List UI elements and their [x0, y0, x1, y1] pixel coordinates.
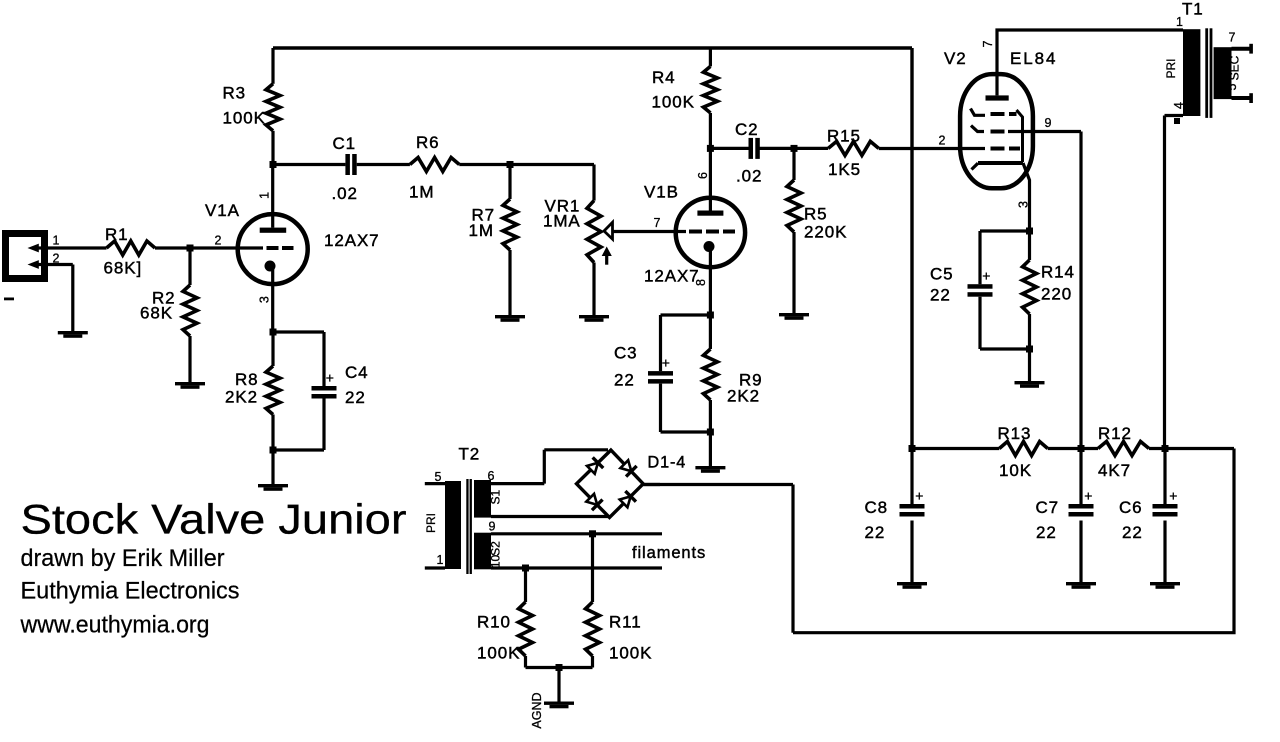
R12 label [1098, 424, 1132, 443]
R12 value 4K7 [1098, 461, 1131, 480]
T2 core [466, 479, 472, 574]
T2 pin 10 label [489, 555, 503, 569]
C5 value 22 [930, 286, 951, 305]
node B+ C8 [909, 445, 916, 452]
svg-text:filaments: filaments [632, 544, 706, 562]
wire [188, 336, 191, 382]
svg-text:SEC: SEC [1228, 55, 1242, 80]
svg-text:100K: 100K [223, 109, 266, 128]
wire [709, 432, 712, 466]
svg-text:R13: R13 [998, 424, 1032, 443]
node V1B plate [707, 145, 714, 152]
svg-text:R14: R14 [1041, 263, 1075, 282]
resistor R8 [266, 366, 280, 415]
resistor R11 [586, 602, 600, 656]
svg-text:6: 6 [488, 469, 495, 483]
VR1 value 1MA [543, 212, 581, 231]
wire [758, 147, 794, 150]
svg-text:+: + [1084, 488, 1092, 504]
ground AGND [544, 702, 574, 709]
svg-text:1M: 1M [409, 183, 434, 202]
wire [980, 297, 1030, 349]
V2 pin 9 label [1045, 116, 1052, 130]
input jack J1 [6, 234, 49, 279]
ground [495, 315, 525, 322]
diode D3 [585, 492, 603, 510]
R4 label [652, 68, 676, 87]
C4 label [345, 363, 369, 382]
D1-4 label [648, 454, 687, 472]
title Stock Valve Junior [21, 496, 407, 543]
R2 label [152, 289, 176, 308]
T2 primary bottom lead [425, 566, 445, 569]
C7 plus [1084, 488, 1092, 504]
V2 label [944, 49, 967, 68]
resistor R15 [828, 141, 879, 155]
wire [592, 165, 595, 201]
svg-text:1K5: 1K5 [828, 160, 861, 179]
T2 S2 label [488, 541, 502, 556]
wire V2 cathode [1023, 163, 1030, 231]
wire wiper to V1B grid [613, 230, 687, 233]
wire rectifier to rail [643, 449, 1235, 633]
wire [1028, 231, 1031, 260]
svg-text:C3: C3 [614, 344, 638, 363]
C8 value 22 [865, 523, 886, 542]
node C2 output [791, 145, 798, 152]
node B+ C6 [1162, 445, 1169, 452]
svg-text:9: 9 [1045, 116, 1052, 130]
V1B pin 6 label [696, 172, 710, 179]
R13 label [998, 424, 1032, 443]
svg-text:3: 3 [257, 296, 271, 303]
svg-text:AGND: AGND [530, 692, 544, 728]
R13 value 10K [999, 461, 1032, 480]
wire V2 screen [1008, 132, 1081, 449]
wire bridge output [643, 483, 660, 486]
wire [357, 163, 410, 166]
wire [524, 568, 527, 602]
ground [58, 331, 88, 338]
svg-text:.02: .02 [332, 184, 358, 203]
wire [459, 163, 594, 166]
node R11 tap [589, 530, 596, 537]
V1B pin 8 label [694, 279, 708, 286]
T1 secondary bottom lead [1232, 93, 1253, 103]
svg-text:2: 2 [939, 134, 946, 148]
triode V1A [238, 214, 308, 284]
svg-text:12AX7: 12AX7 [644, 267, 700, 286]
node V1A cathode [270, 329, 277, 336]
V1A type 12AX7 [324, 231, 380, 250]
wire [1048, 447, 1098, 450]
wire [508, 165, 511, 200]
wire V2 plate [995, 30, 1183, 95]
T1 secondary top lead [1232, 44, 1253, 54]
V1A label [205, 201, 240, 220]
R14 value 220 [1041, 285, 1072, 304]
R1 value 68K] [104, 259, 143, 278]
resistor R12 [1098, 442, 1149, 456]
C1 label [333, 134, 357, 153]
svg-text:+: + [1169, 488, 1177, 504]
node V1B cathode [707, 312, 714, 319]
svg-text:7: 7 [1229, 31, 1236, 45]
svg-text:R3: R3 [223, 84, 247, 103]
VR1 wiper arrow [602, 222, 613, 264]
wire [273, 332, 324, 386]
resistor R2 [183, 285, 197, 336]
T1 label [1182, 0, 1204, 19]
svg-text:V1B: V1B [644, 183, 679, 202]
T1 pin 1 label [1176, 15, 1183, 29]
R9 value 2K2 [727, 387, 760, 406]
svg-text:5: 5 [435, 470, 442, 484]
ground [1015, 381, 1045, 388]
svg-text:PRI: PRI [1164, 58, 1178, 78]
capacitor C1 [345, 154, 356, 175]
T2 primary top lead [425, 482, 445, 485]
C8 plus [915, 488, 923, 504]
capacitor C5 [968, 284, 993, 297]
wire [557, 668, 560, 702]
C4 value 22 [345, 388, 366, 407]
R7 value 1M [469, 221, 494, 240]
V1B pin 7 label [654, 216, 661, 230]
svg-text:T2: T2 [459, 445, 481, 464]
wire [508, 250, 511, 315]
R6 label [416, 133, 440, 152]
triode V1B [676, 198, 745, 267]
wire [591, 534, 594, 602]
subtitle www.euthymia.org [20, 612, 210, 639]
T1 SEC label [1228, 55, 1242, 80]
node R9 bottom [707, 429, 714, 436]
R15 label [827, 127, 861, 146]
svg-text:2: 2 [215, 234, 222, 248]
capacitor C8 [900, 449, 925, 583]
R7 label [472, 206, 496, 225]
wire [792, 232, 795, 313]
wire [155, 246, 263, 249]
svg-text:1: 1 [257, 192, 271, 199]
R8 value 2K2 [225, 388, 258, 407]
T2 PRI label [424, 513, 438, 533]
T2 pin 9 label [489, 520, 496, 534]
svg-text:22: 22 [930, 286, 951, 305]
VR1 label [545, 197, 581, 216]
C1 value .02 [332, 184, 358, 203]
transformer T1 secondary [1214, 47, 1232, 99]
svg-text:2K2: 2K2 [225, 388, 258, 407]
wire [48, 246, 107, 249]
T1 PRI label [1164, 58, 1178, 78]
V2 pin 2 label [939, 134, 946, 148]
jack pin 1 label [53, 234, 60, 248]
svg-text:1MA: 1MA [543, 212, 581, 231]
capacitor C6 [1153, 449, 1178, 583]
C2 label [735, 120, 759, 139]
C8 label [865, 498, 889, 517]
V2 pin 3 label [1016, 201, 1030, 208]
V1A pin 2 label [215, 234, 222, 248]
V2 pin 7 label [981, 40, 995, 47]
svg-text:C6: C6 [1119, 498, 1143, 517]
jack polarity minus [4, 298, 14, 301]
wire [879, 147, 985, 150]
svg-text:EL84: EL84 [1010, 49, 1057, 68]
svg-text:R10: R10 [477, 613, 511, 632]
svg-text:100K: 100K [609, 644, 652, 663]
wire T1 primary bottom [1165, 116, 1184, 449]
wire filament 2 [491, 566, 662, 569]
T2 pin 5 label [435, 470, 442, 484]
resistor R4 [703, 66, 717, 113]
svg-text:C8: C8 [865, 498, 889, 517]
R14 label [1041, 263, 1075, 282]
transformer T2 secondary 1 [474, 480, 491, 518]
resistor R5 [787, 180, 801, 232]
node input grid junction [187, 245, 194, 252]
wire [709, 113, 712, 148]
ground [695, 466, 725, 473]
R11 value 100K [609, 644, 652, 663]
wire [709, 315, 712, 349]
svg-text:R8: R8 [235, 370, 259, 389]
wire [271, 48, 274, 84]
diode D1 [586, 457, 604, 475]
svg-text:22: 22 [1036, 523, 1057, 542]
R1 label [105, 225, 129, 244]
svg-text:1: 1 [437, 553, 444, 567]
wire [709, 400, 712, 432]
node R10 tap [522, 565, 529, 572]
resistor R14 [1023, 260, 1037, 314]
svg-text:C5: C5 [930, 265, 954, 284]
diode D4 [618, 491, 636, 509]
svg-text:www.euthymia.org: www.euthymia.org [20, 612, 210, 639]
wire [1149, 447, 1234, 450]
R5 value 220K [804, 223, 847, 242]
node R6 output [507, 161, 514, 168]
resistor R3 [266, 84, 280, 131]
capacitor C4 [312, 386, 337, 399]
svg-text:C4: C4 [345, 363, 369, 382]
svg-text:+: + [982, 268, 990, 284]
svg-text:8: 8 [694, 279, 708, 286]
svg-text:4: 4 [1172, 102, 1186, 109]
svg-text:10: 10 [489, 555, 503, 569]
wire [794, 147, 828, 150]
svg-text:6: 6 [696, 172, 710, 179]
V1B type 12AX7 [644, 267, 700, 286]
R5 label [804, 205, 828, 224]
R4 value 100K [652, 93, 695, 112]
wire [273, 399, 324, 451]
C2 value .02 [736, 167, 762, 186]
capacitor C3 [648, 371, 673, 384]
R10 value 100K [477, 644, 520, 663]
jack pin 2 label [53, 252, 60, 266]
svg-text:1M: 1M [469, 221, 494, 240]
C3 plus [662, 355, 670, 371]
svg-text:R4: R4 [652, 68, 676, 87]
svg-text:10K: 10K [999, 461, 1032, 480]
subtitle drawn by Erik Miller [21, 545, 225, 572]
svg-text:R11: R11 [609, 613, 642, 632]
C6 label [1119, 498, 1143, 517]
svg-text:Stock Valve Junior: Stock Valve Junior [21, 496, 407, 543]
capacitor C7 [1069, 449, 1094, 583]
svg-text:S2: S2 [488, 541, 502, 556]
svg-text:C7: C7 [1036, 498, 1060, 517]
wire filament 1 [491, 532, 662, 535]
svg-text:22: 22 [345, 388, 366, 407]
wire [188, 248, 191, 285]
svg-text:.02: .02 [736, 167, 762, 186]
wire [271, 450, 274, 484]
wire [661, 384, 711, 432]
node AGND junction [556, 664, 563, 671]
svg-text:R15: R15 [827, 127, 861, 146]
node V2 cathode [1026, 228, 1033, 235]
ground [1066, 582, 1096, 589]
svg-text:T1: T1 [1182, 0, 1204, 19]
wire T2 sec1 top [491, 450, 608, 484]
V1A pin 1 label [257, 192, 271, 199]
filaments label [632, 544, 706, 562]
resistor R6 [410, 158, 459, 172]
ground [779, 313, 809, 320]
wire [271, 332, 274, 366]
R11 label [609, 613, 642, 632]
resistor R7 [503, 199, 517, 250]
resistor R9 [703, 349, 717, 400]
T2 pin 6 label [488, 469, 495, 483]
svg-text:V1A: V1A [205, 201, 240, 220]
svg-text:4K7: 4K7 [1098, 461, 1131, 480]
R15 value 1K5 [828, 160, 861, 179]
wire [980, 231, 1030, 284]
R2 value 68K [140, 304, 173, 323]
capacitor C2 [749, 138, 760, 159]
wire [710, 147, 748, 150]
svg-text:220: 220 [1041, 285, 1072, 304]
R9 label [739, 371, 763, 390]
wire [526, 656, 593, 668]
wire [592, 263, 595, 316]
svg-text:+: + [662, 355, 670, 371]
svg-text:1: 1 [1176, 15, 1183, 29]
V1A pin 3 label [257, 296, 271, 303]
T2 pin 1 label [437, 553, 444, 567]
svg-text:5: 5 [1225, 83, 1239, 90]
resistor R13 [999, 442, 1047, 456]
C5 plus [982, 268, 990, 284]
svg-text:drawn by Erik Miller: drawn by Erik Miller [21, 545, 225, 572]
C5 label [930, 265, 954, 284]
T2 S1 label [488, 490, 502, 505]
svg-text:1: 1 [53, 234, 60, 248]
pentode V2 [960, 74, 1033, 188]
wire [709, 249, 712, 315]
C3 value 22 [614, 371, 635, 390]
R8 label [235, 370, 259, 389]
node V1A plate [270, 161, 277, 168]
V1B label [644, 183, 679, 202]
R10 label [477, 613, 511, 632]
AGND label [530, 692, 544, 728]
svg-text:+: + [915, 488, 923, 504]
T1 core [1205, 28, 1212, 118]
svg-text:12AX7: 12AX7 [324, 231, 380, 250]
svg-text:D1-4: D1-4 [648, 454, 687, 472]
svg-text:22: 22 [614, 371, 635, 390]
svg-text:22: 22 [865, 523, 886, 542]
svg-text:22: 22 [1122, 523, 1143, 542]
wire [1028, 314, 1031, 349]
svg-text:PRI: PRI [424, 513, 438, 533]
transformer T2 primary [445, 481, 461, 569]
T1 pin 4 label [1172, 102, 1186, 109]
svg-text:Euthymia Electronics: Euthymia Electronics [21, 578, 240, 605]
transformer T1 primary [1183, 29, 1200, 116]
wire V1A cathode lead [271, 268, 274, 332]
ground [1150, 582, 1180, 589]
C3 label [614, 344, 638, 363]
svg-text:100K: 100K [477, 644, 520, 663]
svg-text:R5: R5 [804, 205, 828, 224]
bridge rectifier D1-4 [577, 450, 644, 517]
subtitle Euthymia Electronics [21, 578, 240, 605]
resistor R10 [519, 602, 533, 656]
wire T2 sec1 bottom [491, 515, 608, 518]
wire [709, 48, 712, 66]
svg-text:220K: 220K [804, 223, 847, 242]
ground [897, 582, 927, 589]
transformer T2 secondary 2 [474, 533, 491, 570]
C6 plus [1169, 488, 1177, 504]
node R8 bottom [270, 447, 277, 454]
R6 value 1M [409, 183, 434, 202]
svg-text:2K2: 2K2 [727, 387, 760, 406]
svg-text:C2: C2 [735, 120, 759, 139]
wire [912, 447, 999, 450]
ground [258, 484, 288, 491]
node T1 pin4 dot [1174, 118, 1180, 124]
svg-text:100K: 100K [652, 93, 695, 112]
C7 value 22 [1036, 523, 1057, 542]
T2 label [459, 445, 481, 464]
wire B+ rail [273, 48, 912, 449]
svg-text:9: 9 [489, 520, 496, 534]
wire [709, 148, 712, 210]
T1 pin 5 label [1225, 83, 1239, 90]
node R14 bottom [1026, 346, 1033, 353]
svg-text:V2: V2 [944, 49, 967, 68]
diode D2 [619, 459, 637, 477]
svg-text:R12: R12 [1098, 424, 1132, 443]
wire [48, 265, 73, 332]
svg-text:68K: 68K [140, 304, 173, 323]
node B+ C7 [1078, 445, 1085, 452]
R3 value 100K [223, 109, 266, 128]
wire [271, 415, 274, 451]
svg-text:7: 7 [654, 216, 661, 230]
svg-text:68K]: 68K] [104, 259, 143, 278]
wire [271, 131, 274, 165]
svg-text:R6: R6 [416, 133, 440, 152]
